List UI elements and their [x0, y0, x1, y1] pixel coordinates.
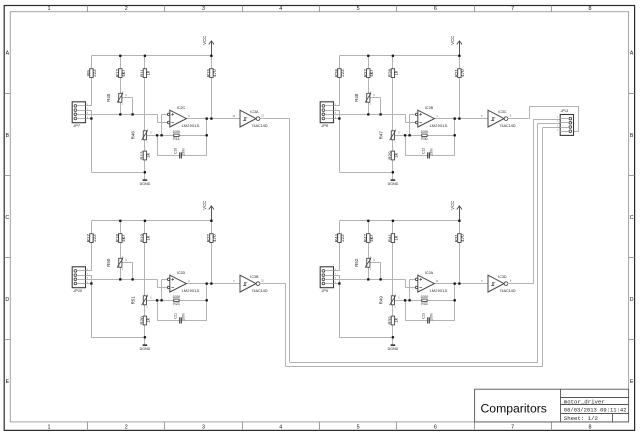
- svg-text:A: A: [6, 51, 10, 57]
- svg-text:DGND: DGND: [140, 347, 151, 351]
- svg-text:4k7: 4k7: [369, 234, 374, 242]
- svg-text:R12: R12: [115, 68, 120, 77]
- svg-text:E: E: [630, 379, 634, 385]
- svg-text:R9: R9: [86, 70, 91, 76]
- svg-text:74AC14D: 74AC14D: [252, 289, 268, 293]
- svg-text:C10: C10: [174, 148, 178, 154]
- svg-text:100n: 100n: [181, 313, 185, 321]
- svg-text:4: 4: [279, 425, 282, 431]
- svg-text:D: D: [5, 297, 9, 303]
- svg-text:1: 1: [47, 6, 50, 12]
- svg-text:DGND: DGND: [140, 182, 151, 186]
- svg-text:motor_driver: motor_driver: [564, 399, 605, 406]
- svg-text:D: D: [630, 297, 634, 303]
- svg-text:C13: C13: [422, 313, 426, 319]
- svg-text:R33: R33: [421, 302, 427, 306]
- svg-text:5: 5: [357, 425, 360, 431]
- svg-text:LM2901D: LM2901D: [430, 124, 448, 128]
- svg-text:4k7: 4k7: [121, 69, 126, 77]
- svg-text:1k: 1k: [394, 235, 399, 241]
- svg-text:VCC: VCC: [450, 201, 455, 210]
- svg-text:1k: 1k: [146, 235, 151, 241]
- svg-text:08/03/2013 09:11:42: 08/03/2013 09:11:42: [564, 407, 627, 414]
- svg-text:B: B: [630, 133, 634, 139]
- svg-text:VCC: VCC: [450, 36, 455, 45]
- svg-text:IC3D: IC3D: [498, 275, 507, 279]
- svg-text:7: 7: [511, 6, 514, 12]
- svg-text:R42: R42: [363, 233, 368, 242]
- svg-text:IC2B: IC2B: [425, 106, 434, 110]
- svg-text:223: 223: [340, 69, 345, 77]
- svg-text:74AC14D: 74AC14D: [500, 289, 516, 293]
- svg-text:JP8: JP8: [320, 124, 328, 128]
- svg-text:470: 470: [460, 234, 465, 242]
- svg-text:R41: R41: [387, 233, 392, 242]
- svg-text:1k: 1k: [146, 70, 151, 76]
- svg-text:JP10: JP10: [72, 289, 83, 293]
- svg-text:C11: C11: [174, 313, 178, 319]
- svg-text:R17: R17: [86, 233, 91, 242]
- svg-text:223: 223: [92, 69, 97, 77]
- svg-text:R44: R44: [334, 233, 339, 242]
- svg-text:JP11: JP11: [560, 109, 569, 113]
- svg-text:VCC: VCC: [202, 201, 207, 210]
- svg-text:R32: R32: [387, 316, 392, 325]
- svg-text:470: 470: [212, 69, 217, 77]
- svg-text:R23: R23: [173, 302, 179, 306]
- svg-text:IC2A: IC2A: [425, 271, 434, 275]
- svg-text:R22: R22: [206, 233, 211, 242]
- svg-text:4: 4: [279, 6, 282, 12]
- svg-text:IC2D: IC2D: [177, 271, 186, 275]
- svg-text:8: 8: [588, 6, 591, 12]
- svg-text:B: B: [6, 133, 10, 139]
- svg-text:100n: 100n: [429, 313, 433, 321]
- svg-text:100n: 100n: [181, 148, 185, 156]
- svg-text:LM2901D: LM2901D: [182, 124, 200, 128]
- svg-text:JP9: JP9: [320, 289, 328, 293]
- svg-text:R47: R47: [379, 131, 384, 140]
- svg-text:DGND: DGND: [388, 182, 399, 186]
- svg-text:R52: R52: [354, 258, 359, 267]
- svg-text:R45: R45: [106, 93, 111, 102]
- svg-text:IC3C: IC3C: [498, 110, 507, 114]
- svg-text:R19: R19: [139, 233, 144, 242]
- svg-text:A: A: [630, 51, 634, 57]
- svg-text:VCC: VCC: [202, 36, 207, 45]
- svg-text:7: 7: [511, 425, 514, 431]
- svg-text:C12: C12: [422, 148, 426, 154]
- svg-text:3: 3: [202, 6, 205, 12]
- svg-text:1: 1: [47, 425, 50, 431]
- svg-text:JP7: JP7: [72, 124, 80, 128]
- svg-text:1k: 1k: [394, 70, 399, 76]
- svg-text:1k: 1k: [394, 152, 399, 158]
- svg-text:Comparitors: Comparitors: [481, 402, 547, 416]
- svg-text:100n: 100n: [429, 148, 433, 156]
- svg-text:3: 3: [202, 425, 205, 431]
- svg-text:2: 2: [125, 6, 128, 12]
- svg-text:6: 6: [434, 6, 437, 12]
- svg-text:R18: R18: [115, 233, 120, 242]
- svg-text:223: 223: [92, 234, 97, 242]
- svg-text:1k: 1k: [146, 152, 151, 158]
- svg-text:LM2901D: LM2901D: [182, 289, 200, 293]
- svg-text:DGND: DGND: [388, 347, 399, 351]
- svg-text:6: 6: [434, 425, 437, 431]
- svg-text:R28: R28: [387, 68, 392, 77]
- svg-text:LM2901D: LM2901D: [430, 289, 448, 293]
- svg-text:8: 8: [588, 425, 591, 431]
- svg-text:470: 470: [212, 234, 217, 242]
- svg-text:1k: 1k: [394, 317, 399, 323]
- svg-text:470: 470: [460, 69, 465, 77]
- svg-text:IC2C: IC2C: [177, 106, 186, 110]
- svg-text:R11: R11: [139, 69, 144, 77]
- svg-text:R31: R31: [454, 233, 459, 242]
- svg-text:R48: R48: [354, 93, 359, 102]
- svg-text:R13: R13: [139, 151, 144, 160]
- svg-text:100K: 100K: [172, 295, 181, 299]
- svg-text:R49: R49: [379, 296, 384, 305]
- svg-text:R21: R21: [454, 68, 459, 77]
- svg-text:R20: R20: [139, 316, 144, 325]
- svg-text:R30: R30: [421, 137, 427, 141]
- svg-text:R26: R26: [334, 68, 339, 77]
- svg-text:R14: R14: [173, 137, 179, 141]
- svg-text:2: 2: [125, 425, 128, 431]
- svg-text:R15: R15: [206, 68, 211, 77]
- svg-text:R27: R27: [363, 68, 368, 77]
- svg-text:R50: R50: [106, 258, 111, 267]
- svg-text:100K: 100K: [420, 295, 429, 299]
- svg-text:4k7: 4k7: [369, 69, 374, 77]
- svg-text:4k7: 4k7: [121, 234, 126, 242]
- svg-text:R46: R46: [131, 131, 136, 140]
- svg-text:IC3A: IC3A: [250, 110, 259, 114]
- svg-text:1k: 1k: [146, 317, 151, 323]
- svg-text:74AC14D: 74AC14D: [252, 124, 268, 128]
- svg-text:IC3B: IC3B: [250, 275, 259, 279]
- svg-text:E: E: [6, 379, 10, 385]
- svg-text:223: 223: [340, 234, 345, 242]
- svg-text:5: 5: [357, 6, 360, 12]
- svg-text:C: C: [630, 215, 634, 221]
- svg-text:74AC14D: 74AC14D: [500, 124, 516, 128]
- svg-text:C: C: [5, 215, 9, 221]
- svg-text:R51: R51: [131, 296, 136, 305]
- svg-text:R29: R29: [387, 151, 392, 160]
- svg-text:Sheet: 1/2: Sheet: 1/2: [564, 415, 599, 422]
- svg-text:100K: 100K: [172, 130, 181, 134]
- svg-text:100K: 100K: [420, 130, 429, 134]
